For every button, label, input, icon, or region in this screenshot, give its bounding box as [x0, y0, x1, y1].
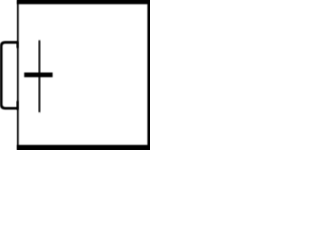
component body bottom edge (thick, clipped at canvas bottom)	[17, 145, 151, 151]
terminal tab right-corner stub (top junction with body edge)	[17, 42, 19, 48]
component body top edge (thick, clipped at canvas top)	[17, 0, 151, 4]
terminal tab (rounded rectangle on left side)	[1, 42, 18, 108]
terminal tab right-corner stub (bottom junction with body edge)	[17, 101, 19, 110]
component body right edge (thick, clipped at canvas right)	[147, 0, 151, 151]
component body left edge core	[17, 0, 18, 150]
polarity marking plus : vertical stroke	[39, 40, 41, 112]
component body left edge (thin vertical line)	[17, 0, 19, 150]
polarity marking plus : horizontal bar	[24, 73, 52, 78]
polarity marking plus : vertical stroke core	[39, 41, 40, 112]
